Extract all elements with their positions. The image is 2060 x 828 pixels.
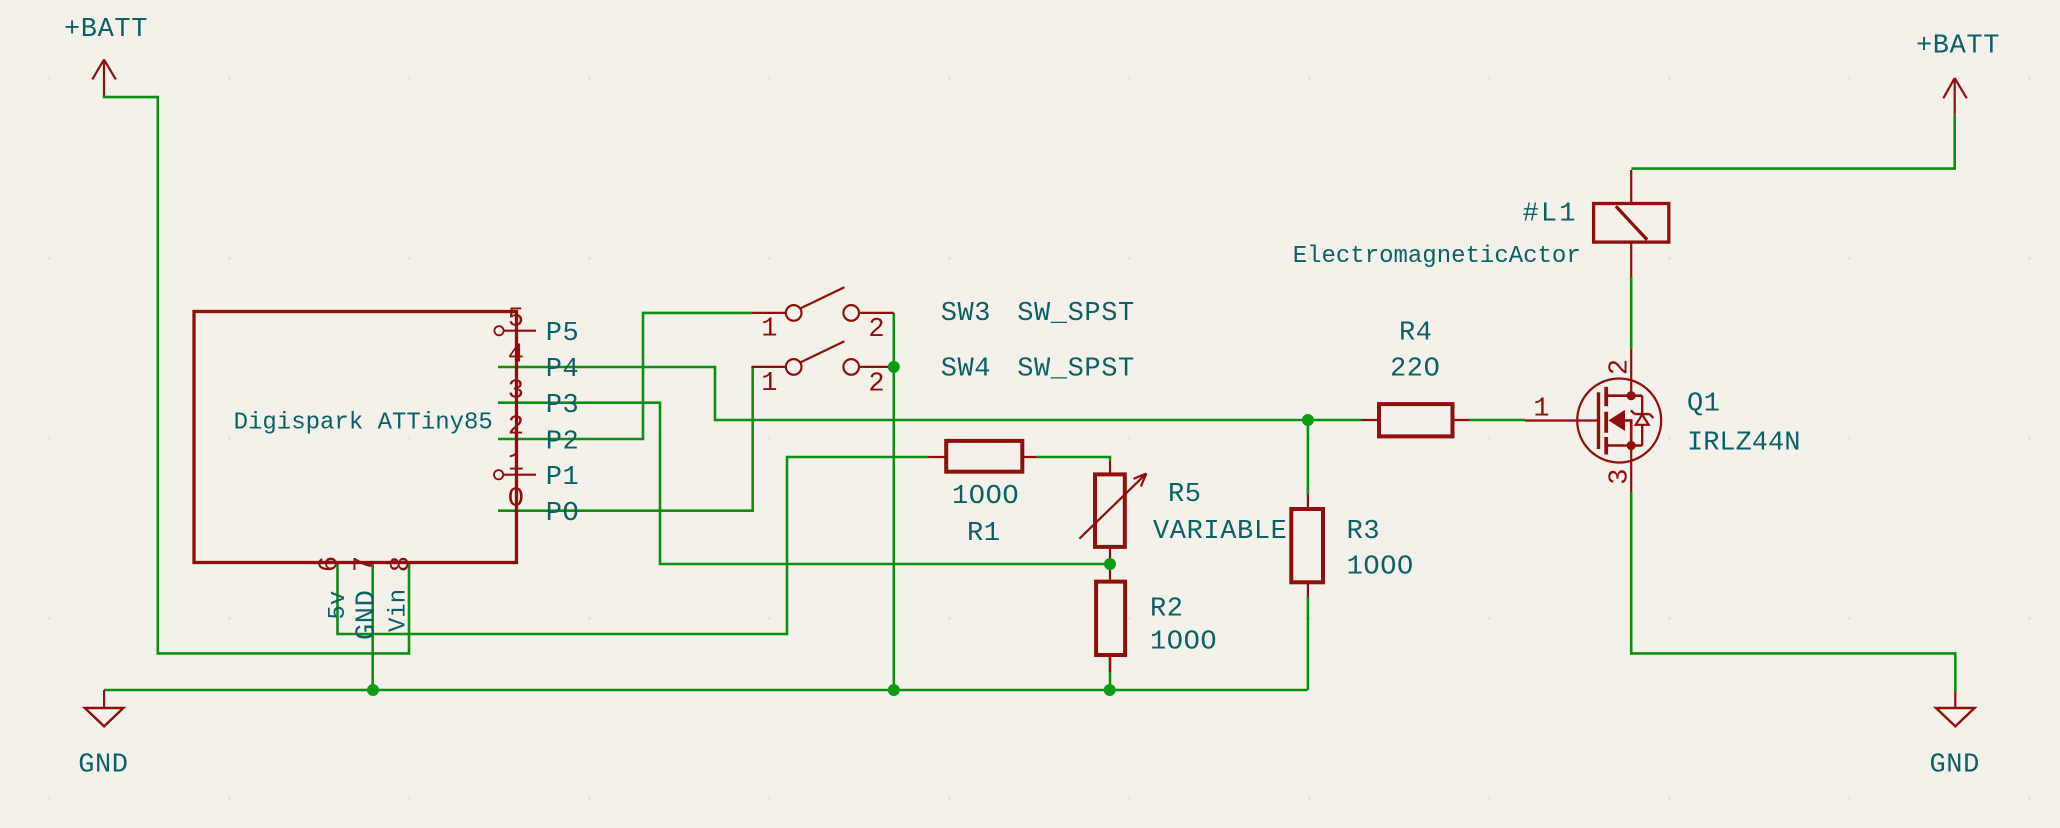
svg-text:P1: P1 [546,463,580,493]
svg-text:5: 5 [508,305,524,335]
svg-text:1OOO: 1OOO [952,482,1019,512]
svg-text:22O: 22O [1390,355,1440,385]
svg-text:+BATT: +BATT [64,15,148,45]
svg-text:P2: P2 [546,427,580,457]
svg-text:Digispark ATTiny85: Digispark ATTiny85 [234,409,493,436]
svg-text:IRLZ44N: IRLZ44N [1687,429,1800,459]
svg-text:1: 1 [508,449,524,479]
svg-text:6: 6 [315,556,345,572]
svg-text:8: 8 [387,556,417,572]
svg-text:GND: GND [1930,751,1980,781]
svg-text:#L1: #L1 [1523,200,1578,230]
svg-text:+BATT: +BATT [1916,31,2000,61]
svg-text:P4: P4 [546,355,580,385]
svg-text:7: 7 [351,556,381,572]
svg-text:2: 2 [1606,359,1636,375]
svg-text:2: 2 [508,413,524,443]
svg-text:3: 3 [1606,468,1636,484]
svg-text:1: 1 [761,314,777,344]
svg-text:SW_SPST: SW_SPST [1017,355,1135,385]
svg-text:VARIABLE: VARIABLE [1153,517,1287,547]
svg-text:Q1: Q1 [1687,389,1721,419]
svg-text:2: 2 [868,369,884,399]
svg-text:R1: R1 [967,519,1001,549]
svg-text:R4: R4 [1399,318,1433,348]
svg-text:1: 1 [1533,394,1549,424]
svg-text:P3: P3 [546,391,580,421]
svg-text:3: 3 [508,377,524,407]
svg-text:5v: 5v [325,591,352,620]
svg-text:ElectromagneticActor: ElectromagneticActor [1293,243,1581,270]
svg-text:O: O [508,485,524,515]
svg-text:2: 2 [868,315,884,345]
svg-text:GND: GND [78,751,128,781]
svg-text:R2: R2 [1150,595,1184,625]
svg-text:1OOO: 1OOO [1347,552,1414,582]
svg-text:R5: R5 [1168,480,1202,510]
svg-text:R3: R3 [1347,517,1381,547]
svg-text:P5: P5 [546,319,580,349]
svg-text:4: 4 [508,341,524,371]
svg-text:SW_SPST: SW_SPST [1017,299,1135,329]
svg-text:SW4: SW4 [941,355,991,385]
svg-text:1: 1 [761,369,777,399]
svg-text:1OOO: 1OOO [1150,628,1217,658]
svg-text:PO: PO [546,499,580,529]
svg-text:SW3: SW3 [941,299,991,329]
svg-text:GND: GND [353,590,383,640]
svg-text:Vin: Vin [386,589,413,632]
